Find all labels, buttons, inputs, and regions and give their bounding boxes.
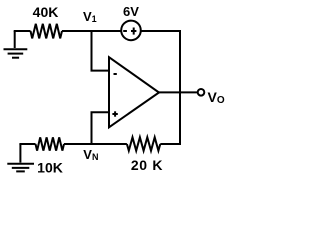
wire right rail [179, 30, 181, 145]
wire V1 to op-amp inverting input [92, 31, 110, 71]
ground (top-left) [4, 31, 28, 58]
wire op-amp output [159, 91, 198, 93]
svg-text:20 K: 20 K [131, 157, 163, 173]
wire ground to R 10K [19, 143, 35, 145]
svg-text:40K: 40K [33, 4, 59, 20]
wire VN to op-amp non-inverting input [92, 112, 110, 144]
wire R10K to R20K (node VN) [64, 143, 127, 145]
op-amp U1 [109, 57, 159, 127]
wire R20K to right rail [160, 143, 181, 145]
wire ground to R 40K [14, 30, 31, 32]
resistor 10K [36, 137, 65, 150]
ground (bottom-left) [7, 144, 34, 171]
svg-text:10K: 10K [37, 160, 63, 176]
output terminal [198, 89, 205, 96]
voltage source 6V [121, 21, 141, 41]
resistor 20K [127, 137, 160, 150]
svg-text:6V: 6V [123, 4, 139, 19]
wire source to right rail [141, 30, 181, 32]
wire R40K to source (top rail, node V1) [62, 30, 121, 32]
resistor 40K [31, 24, 63, 39]
